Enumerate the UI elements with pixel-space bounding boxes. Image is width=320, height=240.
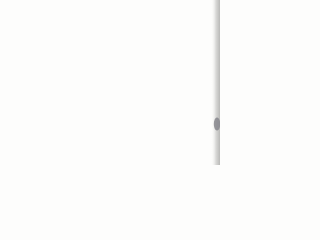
- page right edge shading: [211, 0, 220, 165]
- edge smudge: [214, 118, 220, 131]
